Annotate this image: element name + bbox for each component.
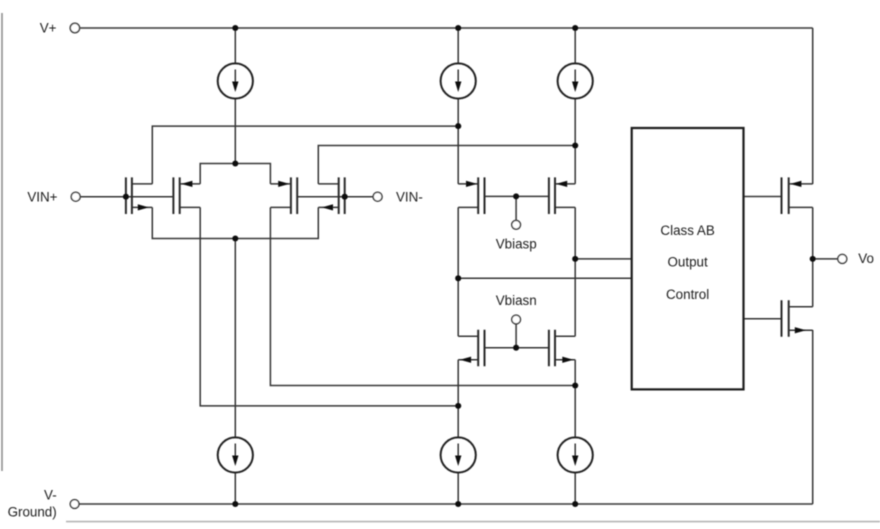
svg-text:VIN-: VIN- [396,190,423,205]
svg-text:Class AB: Class AB [660,223,714,238]
svg-text:Ground): Ground) [8,505,57,520]
svg-text:VIN+: VIN+ [27,190,57,205]
svg-text:Vbiasp: Vbiasp [496,237,537,252]
svg-text:Vbiasn: Vbiasn [496,293,537,308]
svg-text:V+: V+ [40,21,57,36]
svg-text:Control: Control [666,287,709,302]
svg-text:V-: V- [44,487,57,502]
svg-text:Vo: Vo [858,251,874,266]
svg-text:Output: Output [667,255,707,270]
